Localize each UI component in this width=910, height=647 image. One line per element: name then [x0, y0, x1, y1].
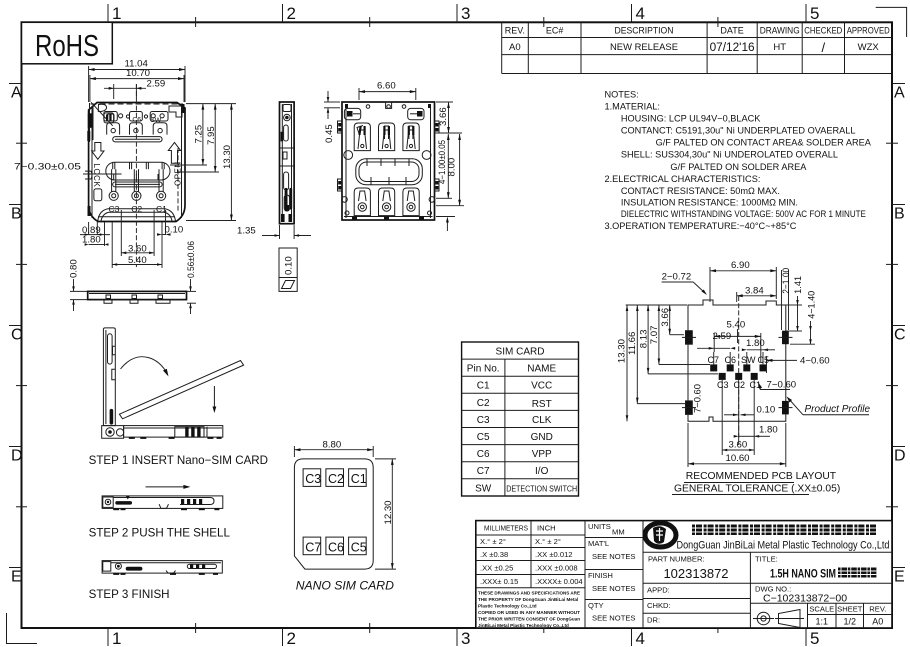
svg-text:C1: C1 — [477, 381, 490, 392]
SIM CARD pin table — [462, 342, 579, 496]
svg-text:C7: C7 — [708, 355, 720, 365]
svg-text:CHKD:: CHKD: — [647, 601, 671, 610]
svg-text:102313872: 102313872 — [663, 566, 728, 581]
svg-text:JinBiLai Metal Plastic Tech: JinBiLai Metal Plastic Technology Co.,Lt… — [478, 623, 569, 628]
svg-text:GENERAL TOLERANCE (.XX±0.05): GENERAL TOLERANCE (.XX±0.05) — [674, 484, 840, 495]
svg-text:SW: SW — [475, 483, 492, 494]
sim contact C1 — [349, 469, 367, 487]
svg-text:NOTES:: NOTES: — [605, 90, 639, 100]
OPEN arrow — [168, 143, 180, 164]
svg-text:G/F PALTED ON CONTACT AREA: G/F PALTED ON CONTACT AREA& SOLDER AREA — [656, 138, 872, 148]
svg-text:A0: A0 — [509, 42, 521, 53]
svg-text:1: 1 — [112, 629, 121, 647]
back view upper contact 1 — [354, 123, 370, 151]
revision table — [502, 22, 892, 73]
svg-text:C3: C3 — [717, 380, 729, 390]
zone tick 3 top — [457, 4, 470, 23]
svg-text:3.66: 3.66 — [660, 308, 671, 327]
dim 0.56±0.06 — [186, 241, 196, 314]
svg-text:1.41: 1.41 — [793, 276, 803, 294]
left border minor ticks — [16, 143, 27, 507]
svg-text:APPROVED: APPROVED — [847, 26, 890, 36]
dim 10.60 — [688, 423, 786, 467]
dim 12.30 — [375, 459, 396, 569]
step1 shell upright — [89, 328, 268, 467]
svg-text:C3: C3 — [305, 472, 321, 486]
side view rivet circle — [284, 114, 291, 121]
svg-text:Plastic Technology Co.,Ltd: Plastic Technology Co.,Ltd — [478, 604, 537, 609]
svg-text:X.° ± 2°: X.° ± 2° — [480, 537, 506, 546]
svg-text:2.ELECTRICAL CHARACTERISTICS:: 2.ELECTRICAL CHARACTERISTICS: — [605, 174, 761, 184]
svg-text:2−1.00: 2−1.00 — [781, 268, 791, 294]
zone tick 2 bottom — [283, 628, 296, 647]
svg-text:DR:: DR: — [647, 616, 660, 625]
svg-text:4−1.40: 4−1.40 — [807, 291, 817, 319]
back view lower contact 3 — [403, 188, 419, 216]
svg-text:THE PRIOR WRITTEN CONSENT: THE PRIOR WRITTEN CONSENT OF DongGuan — [478, 617, 580, 622]
dim 8.00 — [436, 134, 464, 206]
svg-text:C−102313872−00: C−102313872−00 — [763, 593, 847, 605]
zone tick 5 bottom — [806, 628, 819, 647]
dim 7-0.60 right — [758, 380, 796, 391]
svg-text:APPD:: APPD: — [647, 586, 670, 595]
svg-text:1.35: 1.35 — [237, 226, 256, 237]
company logo — [645, 523, 676, 547]
zone letter D left — [9, 447, 23, 465]
back view upper contact 2 — [379, 123, 395, 151]
svg-text:DESCRIPTION: DESCRIPTION — [615, 26, 674, 36]
svg-text:SHEET: SHEET — [837, 605, 863, 614]
svg-text:THESE DRAWINGS AND SPECIFIC: THESE DRAWINGS AND SPECIFICATIONS ARE — [478, 591, 580, 596]
zone tick 4 bottom — [632, 628, 645, 647]
svg-text:8.13: 8.13 — [638, 330, 649, 349]
side view upper slot — [284, 125, 289, 141]
dim 4-1.00±0.05 — [436, 134, 452, 198]
dim 1.41 — [786, 276, 803, 331]
zone tick 5 top — [806, 4, 819, 23]
svg-text:C: C — [11, 327, 23, 344]
dim 8.80 — [294, 439, 373, 457]
back view feet — [345, 104, 431, 220]
svg-text:B: B — [894, 206, 905, 223]
dim 1.80 — [82, 234, 109, 246]
svg-text:SW: SW — [741, 355, 756, 365]
svg-text:EC#: EC# — [546, 26, 564, 36]
svg-text:2: 2 — [287, 629, 296, 647]
side view outline — [237, 102, 311, 291]
zone letter C left — [9, 326, 23, 344]
zone tick 1 top — [108, 4, 121, 23]
svg-text:INCH: INCH — [537, 524, 556, 533]
svg-text:1/2: 1/2 — [844, 617, 857, 627]
svg-text:D: D — [11, 448, 23, 465]
svg-text:SEE NOTES: SEE NOTES — [592, 614, 635, 623]
svg-text:11.66: 11.66 — [627, 332, 638, 355]
svg-text:STEP 3 FINISH: STEP 3 FINISH — [89, 588, 170, 601]
svg-text:CONTACT RESISTANCE: 50mΩ MA: CONTACT RESISTANCE: 50mΩ MAX. — [621, 186, 780, 196]
svg-text:0.10: 0.10 — [284, 256, 295, 275]
dim 3.66 back — [436, 102, 462, 133]
units/material/finish/qty cells — [588, 522, 635, 623]
svg-text:C6: C6 — [477, 449, 490, 460]
dim 2-0.72 — [662, 272, 707, 296]
svg-text:STEP 2 PUSH THE SHELL: STEP 2 PUSH THE SHELL — [89, 527, 231, 540]
svg-text:3.OPERATION TEMPERATURE:−40°C: 3.OPERATION TEMPERATURE:−40°C~+85°C — [605, 221, 797, 231]
svg-text:4−0.60: 4−0.60 — [800, 355, 830, 366]
dim 0.45 — [324, 91, 340, 143]
svg-text:DIELECTRIC WITHSTANDING VOLT: DIELECTRIC WITHSTANDING VOLTAGE: 500V AC… — [621, 209, 866, 219]
svg-text:SHELL: SUS304,30u" Ni UNDER: SHELL: SUS304,30u" Ni UNDEROLATED OVERAL… — [621, 150, 838, 160]
lower shell bar — [113, 182, 162, 187]
svg-text:3: 3 — [461, 4, 470, 23]
svg-text:0.45: 0.45 — [324, 124, 335, 143]
back view top-right pad — [408, 108, 424, 119]
svg-text:D: D — [894, 448, 906, 465]
back view lower contact 1 — [354, 188, 370, 216]
svg-text:COPIED OR USED IN ANY MAN: COPIED OR USED IN ANY MANNER WITHOUT — [478, 610, 580, 615]
svg-text:GND: GND — [531, 432, 553, 443]
zone letter C right — [892, 326, 906, 344]
svg-text:3: 3 — [461, 629, 470, 647]
svg-text:/: / — [821, 40, 825, 55]
svg-text:C2: C2 — [328, 472, 344, 486]
svg-text:5: 5 — [810, 629, 819, 647]
svg-text:0.10: 0.10 — [757, 405, 776, 416]
svg-text:3.60: 3.60 — [729, 439, 748, 450]
svg-text:VCC: VCC — [531, 381, 552, 392]
left dims: 3.66 — [660, 305, 684, 335]
svg-text:7−0.60: 7−0.60 — [767, 380, 797, 391]
svg-text:SEE NOTES: SEE NOTES — [592, 552, 635, 561]
svg-text:5.40: 5.40 — [727, 320, 746, 331]
pad C3 — [719, 373, 726, 455]
svg-text:10.70: 10.70 — [126, 68, 150, 79]
dim 1.80 pcb bottom — [734, 424, 778, 437]
svg-text:DATE: DATE — [720, 26, 743, 36]
pad C7 — [710, 352, 717, 371]
pad SW — [743, 352, 750, 371]
svg-text:3.84: 3.84 — [745, 285, 764, 296]
svg-text:A0: A0 — [872, 617, 883, 627]
bottom tray arcs — [98, 209, 176, 221]
centerline vertical — [135, 84, 137, 267]
caption general tolerance — [672, 484, 840, 495]
caption recommended pcb layout — [684, 471, 837, 483]
svg-text:.XXX± 0.15: .XXX± 0.15 — [480, 577, 518, 586]
step1 down arrow — [213, 386, 215, 409]
svg-text:TITLE:: TITLE: — [755, 555, 778, 564]
svg-text:2: 2 — [287, 4, 296, 23]
svg-text:1.80: 1.80 — [759, 424, 778, 435]
LOCK arrow — [92, 143, 104, 160]
svg-text:13.30: 13.30 — [222, 145, 233, 169]
dim 3.84 — [737, 285, 777, 302]
pad C5 — [760, 352, 767, 371]
step1 base — [124, 426, 223, 438]
back view lower contact 2 — [379, 188, 395, 216]
step1 hinge — [102, 426, 124, 439]
svg-text:.XXXX± 0.004: .XXXX± 0.004 — [535, 577, 583, 586]
zone letter A right — [892, 84, 905, 102]
svg-text:LOCK: LOCK — [92, 164, 101, 188]
svg-text:C1: C1 — [351, 472, 367, 486]
zone tick 3 bottom — [457, 628, 470, 647]
bottom strip view — [69, 241, 197, 314]
svg-text:6.60: 6.60 — [377, 81, 396, 92]
sim contact C2 — [326, 469, 344, 487]
dim 4-1.40 — [790, 291, 817, 345]
dim 6.60 — [359, 81, 416, 101]
flatness callout 0.10 — [279, 248, 297, 291]
dim 0.10 pcb — [724, 405, 775, 417]
svg-text:1.5H NANO SIM: 1.5H NANO SIM — [770, 569, 836, 581]
svg-text:0.80: 0.80 — [69, 259, 80, 278]
svg-text:6.90: 6.90 — [731, 260, 750, 271]
svg-text:Product Profile: Product Profile — [805, 404, 871, 415]
dim 2-1.00 — [781, 268, 791, 330]
tolerance table text — [480, 524, 583, 587]
contact C3 — [109, 169, 118, 200]
svg-text:C6: C6 — [725, 355, 737, 365]
lock block — [94, 189, 102, 201]
svg-text:RECOMMENDED PCB LAYOUT: RECOMMENDED PCB LAYOUT — [686, 471, 837, 482]
side view mid notches — [280, 148, 295, 166]
dim 7.25 — [170, 104, 236, 165]
svg-text:VPP: VPP — [532, 449, 552, 460]
top border minor ticks — [196, 17, 718, 27]
svg-text:8.80: 8.80 — [323, 439, 342, 450]
svg-text:1:1: 1:1 — [816, 617, 829, 627]
svg-text:E: E — [11, 569, 22, 586]
svg-text:12.30: 12.30 — [383, 500, 394, 524]
back view lower side circles — [342, 197, 435, 215]
front view top band circles — [119, 114, 165, 118]
dim 0.80 — [69, 259, 88, 311]
zone letter D right — [892, 447, 906, 465]
front view left pad — [104, 113, 114, 123]
back view center stadium — [356, 159, 423, 185]
svg-text:SCALE: SCALE — [809, 605, 834, 614]
front view contact windows — [107, 123, 167, 135]
svg-text:MAT'L: MAT'L — [588, 539, 609, 548]
scale sheet rev cells — [809, 605, 886, 614]
svg-text:2.59: 2.59 — [713, 331, 732, 342]
svg-text:NAME: NAME — [527, 364, 556, 375]
svg-text:4: 4 — [636, 629, 645, 647]
svg-text:5: 5 — [810, 4, 819, 23]
dim 6.90 — [710, 260, 776, 302]
svg-text:.X ±0.38: .X ±0.38 — [480, 550, 508, 559]
svg-text:REV.: REV. — [505, 26, 525, 36]
svg-text:C2: C2 — [477, 398, 490, 409]
left dims: 8.13 — [638, 305, 718, 374]
svg-text:INSULATION RESISTANCE: 1000M: INSULATION RESISTANCE: 1000MΩ MIN. — [621, 198, 798, 208]
dim 10.70 — [90, 68, 184, 102]
product profile callout — [787, 397, 871, 416]
svg-text:HT: HT — [773, 42, 786, 53]
step2 drawing — [89, 485, 231, 540]
svg-text:7.07: 7.07 — [649, 326, 660, 345]
svg-text:C: C — [894, 327, 906, 344]
pad C6 — [727, 352, 734, 371]
pad labels top row — [708, 355, 770, 365]
svg-text:CLK: CLK — [532, 415, 552, 426]
left dims: 11.66 — [627, 305, 686, 404]
svg-text:4: 4 — [636, 4, 645, 23]
dim 2.59 — [104, 79, 165, 100]
step1 rotate arrow — [121, 357, 168, 374]
sim contact C7 — [303, 537, 321, 555]
svg-text:Pin No.: Pin No. — [467, 364, 500, 375]
svg-text:RoHS: RoHS — [35, 28, 99, 63]
svg-text:G/F PALTED ON SOLDER AREA: G/F PALTED ON SOLDER AREA — [670, 162, 807, 172]
zone letter B left — [9, 205, 22, 223]
svg-text:7.95: 7.95 — [206, 126, 217, 145]
back view right side tabs — [435, 121, 440, 191]
svg-text:SEE NOTES: SEE NOTES — [592, 584, 635, 593]
svg-text:2−0.72: 2−0.72 — [662, 272, 692, 283]
back view outline — [324, 81, 464, 232]
pad C2 — [735, 373, 742, 440]
svg-text:MM: MM — [612, 528, 625, 537]
svg-text:MILLIMETERS: MILLIMETERS — [484, 524, 528, 533]
svg-text:X.° ± 2°: X.° ± 2° — [535, 537, 561, 546]
dim 4-0.60 — [767, 355, 830, 373]
svg-text:1.80: 1.80 — [746, 338, 765, 349]
centerline horizontal 7-0.30 leader — [83, 173, 122, 175]
svg-text:.XX ±0.012: .XX ±0.012 — [535, 550, 573, 559]
svg-text:C7: C7 — [477, 466, 490, 477]
svg-text:3.66: 3.66 — [438, 107, 449, 126]
svg-text:PART NUMBER:: PART NUMBER: — [648, 555, 705, 564]
contact C2 — [132, 169, 141, 200]
step1 sim card inclined — [119, 361, 243, 419]
dim 5.40 — [112, 255, 162, 266]
svg-text:HOUSING: LCP UL94V−0,BLACK: HOUSING: LCP UL94V−0,BLACK — [621, 114, 761, 124]
card slot stadium — [106, 162, 170, 180]
svg-text:B: B — [11, 206, 22, 223]
svg-text:THE PROPERTY OF DongGuan J: THE PROPERTY OF DongGuan JinBiLai Metal — [478, 597, 578, 602]
left dims: 7.07 — [649, 305, 710, 365]
svg-text:0.10: 0.10 — [165, 224, 184, 235]
svg-text:CONTANCT: C5191,30u" Ni UND: CONTANCT: C5191,30u" Ni UNDERPLATED OVAE… — [621, 126, 856, 136]
svg-text:NANO SIM CARD: NANO SIM CARD — [296, 579, 394, 593]
pad labels bottom row — [717, 380, 761, 390]
svg-text:DRAWING: DRAWING — [760, 26, 800, 36]
left edge slot — [85, 171, 92, 179]
lower extension lines — [89, 210, 166, 268]
svg-text:C2: C2 — [734, 380, 746, 390]
svg-text:DongGuan JinBiLai Metal Pla: DongGuan JinBiLai Metal Plastic Technolo… — [677, 540, 890, 552]
svg-text:7−0.60: 7−0.60 — [693, 384, 704, 413]
dim 1.80 pcb top — [742, 338, 775, 351]
svg-text:CHECKED: CHECKED — [804, 26, 842, 36]
back view upper contact 3 — [403, 123, 419, 151]
pcb edge pads left — [686, 331, 693, 415]
front view top small pads — [104, 112, 168, 122]
left dims: 13.30 — [617, 305, 688, 421]
dim 13.30 — [186, 104, 236, 221]
svg-text:QTY: QTY — [588, 601, 604, 610]
legal fine print — [478, 591, 580, 629]
svg-text:NEW RELEASE: NEW RELEASE — [610, 42, 678, 53]
dim 11.04 — [89, 59, 185, 103]
svg-text:10.60: 10.60 — [726, 453, 750, 464]
front view shell spring bar — [113, 137, 162, 142]
notes text block — [605, 90, 872, 231]
dim 0.10 front — [157, 224, 183, 236]
contact C1 — [157, 169, 166, 200]
svg-text:RST: RST — [532, 399, 552, 410]
svg-text:07/12'16: 07/12'16 — [710, 42, 755, 54]
third angle projection symbol — [753, 610, 804, 628]
front view left edge accents — [87, 104, 184, 216]
svg-text:STEP 1 INSERT Nano−SIM CAR: STEP 1 INSERT Nano−SIM CARD — [89, 454, 268, 467]
svg-text:C7: C7 — [305, 540, 321, 554]
dim 5.40 pcb — [714, 320, 761, 363]
side view feet — [281, 205, 292, 222]
svg-text:.XXX ±0.008: .XXX ±0.008 — [535, 564, 578, 573]
side view lower slots — [284, 172, 289, 190]
svg-text:8.00: 8.00 — [447, 158, 458, 177]
zone letter E left — [9, 568, 22, 586]
zone letter B right — [892, 205, 905, 223]
step3 drawing — [89, 561, 223, 601]
svg-text:1.MATERIAL:: 1.MATERIAL: — [605, 102, 660, 112]
dim 3.60 pcb — [722, 439, 754, 451]
sim contact C3 — [303, 469, 321, 487]
svg-text:I/O: I/O — [535, 466, 549, 477]
bottom border minor ticks — [196, 623, 718, 633]
front view top-right tab — [169, 106, 182, 117]
svg-text:UNITS: UNITS — [588, 522, 611, 531]
svg-text:7−0.30±0.05: 7−0.30±0.05 — [14, 162, 81, 173]
right border minor ticks — [886, 143, 898, 507]
svg-text:.XX ±0.25: .XX ±0.25 — [480, 564, 513, 573]
svg-text:C3: C3 — [477, 415, 490, 426]
sim contact C5 — [349, 537, 367, 555]
dim 2.59 pcb — [697, 331, 735, 350]
svg-text:7.25: 7.25 — [194, 125, 205, 144]
back view top-left pad — [344, 108, 360, 119]
dim 1.35 — [237, 225, 311, 239]
dim 0.89 — [80, 225, 110, 236]
svg-text:A: A — [894, 85, 905, 102]
dim 3.60 — [121, 243, 154, 254]
svg-text:C5: C5 — [351, 540, 367, 554]
svg-text:SIM CARD: SIM CARD — [496, 347, 545, 358]
pcb edge pads right — [782, 331, 789, 415]
svg-text:E: E — [894, 569, 905, 586]
svg-text:1: 1 — [112, 4, 121, 23]
zone tick 4 top — [632, 4, 645, 23]
zone tick 1 bottom — [108, 628, 121, 647]
svg-text:C5: C5 — [477, 432, 490, 443]
svg-text:2.59: 2.59 — [147, 79, 166, 90]
pcb layout outline — [617, 260, 871, 495]
svg-text:FINISH: FINISH — [588, 571, 613, 580]
back bottom ext — [436, 217, 455, 232]
zone tick 2 top — [283, 4, 296, 23]
title block frame — [476, 521, 892, 628]
svg-text:WZX: WZX — [858, 42, 880, 53]
pad C1 — [751, 373, 758, 455]
nano sim card outline — [294, 439, 396, 592]
zone letter A left — [9, 84, 22, 102]
svg-text:A: A — [11, 85, 22, 102]
dim 7.95 — [178, 104, 219, 172]
corner trim mark bottom-left — [7, 613, 38, 644]
